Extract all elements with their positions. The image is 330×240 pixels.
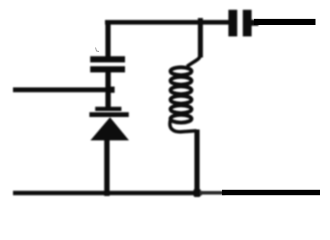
wire: left branch vertical (top corner down to C1) bbox=[105, 20, 110, 57]
wire: thick output line top right bbox=[254, 19, 316, 25]
wire: thick output line bottom right bbox=[222, 190, 320, 195]
inductor L1 coil loops bbox=[171, 67, 192, 122]
capacitor C1 bottom plate bbox=[90, 66, 125, 72]
wire: thin connector between junction and thick output bbox=[200, 191, 225, 195]
inductor L1 bottom hook bbox=[170, 120, 197, 132]
wire: left horizontal input bbox=[13, 87, 108, 92]
varactor D1 main cathode bar bbox=[89, 112, 128, 117]
inductor L1 top hook bbox=[187, 54, 200, 67]
wire: top horizontal from left branch corner to capacitor C2 bbox=[105, 20, 229, 25]
wire: C2 right nub bbox=[251, 20, 258, 26]
node: junction of left input and left branch bbox=[109, 87, 115, 93]
wire: vertical from inductor bottom to bottom rail bbox=[194, 130, 199, 198]
wire: vertical between C1 and varactor D1 bbox=[105, 72, 110, 108]
wire: bottom rail (thin left part) bbox=[13, 191, 202, 195]
artifact tick near C1 bbox=[96, 48, 100, 52]
wire: vertical from D1 anode to bottom rail bbox=[104, 139, 109, 196]
varactor D1 upper cathode bar bbox=[95, 107, 121, 111]
varactor D1 triangle (anode, pointing up) bbox=[90, 117, 129, 140]
capacitor C2 right plate bbox=[243, 10, 252, 37]
capacitor C1 top plate bbox=[90, 56, 125, 62]
wire: middle branch vertical from top rail to inductor bbox=[198, 18, 203, 58]
node: junction of inductor branch and bottom rail bbox=[194, 189, 201, 196]
capacitor C2 left plate bbox=[228, 10, 237, 37]
